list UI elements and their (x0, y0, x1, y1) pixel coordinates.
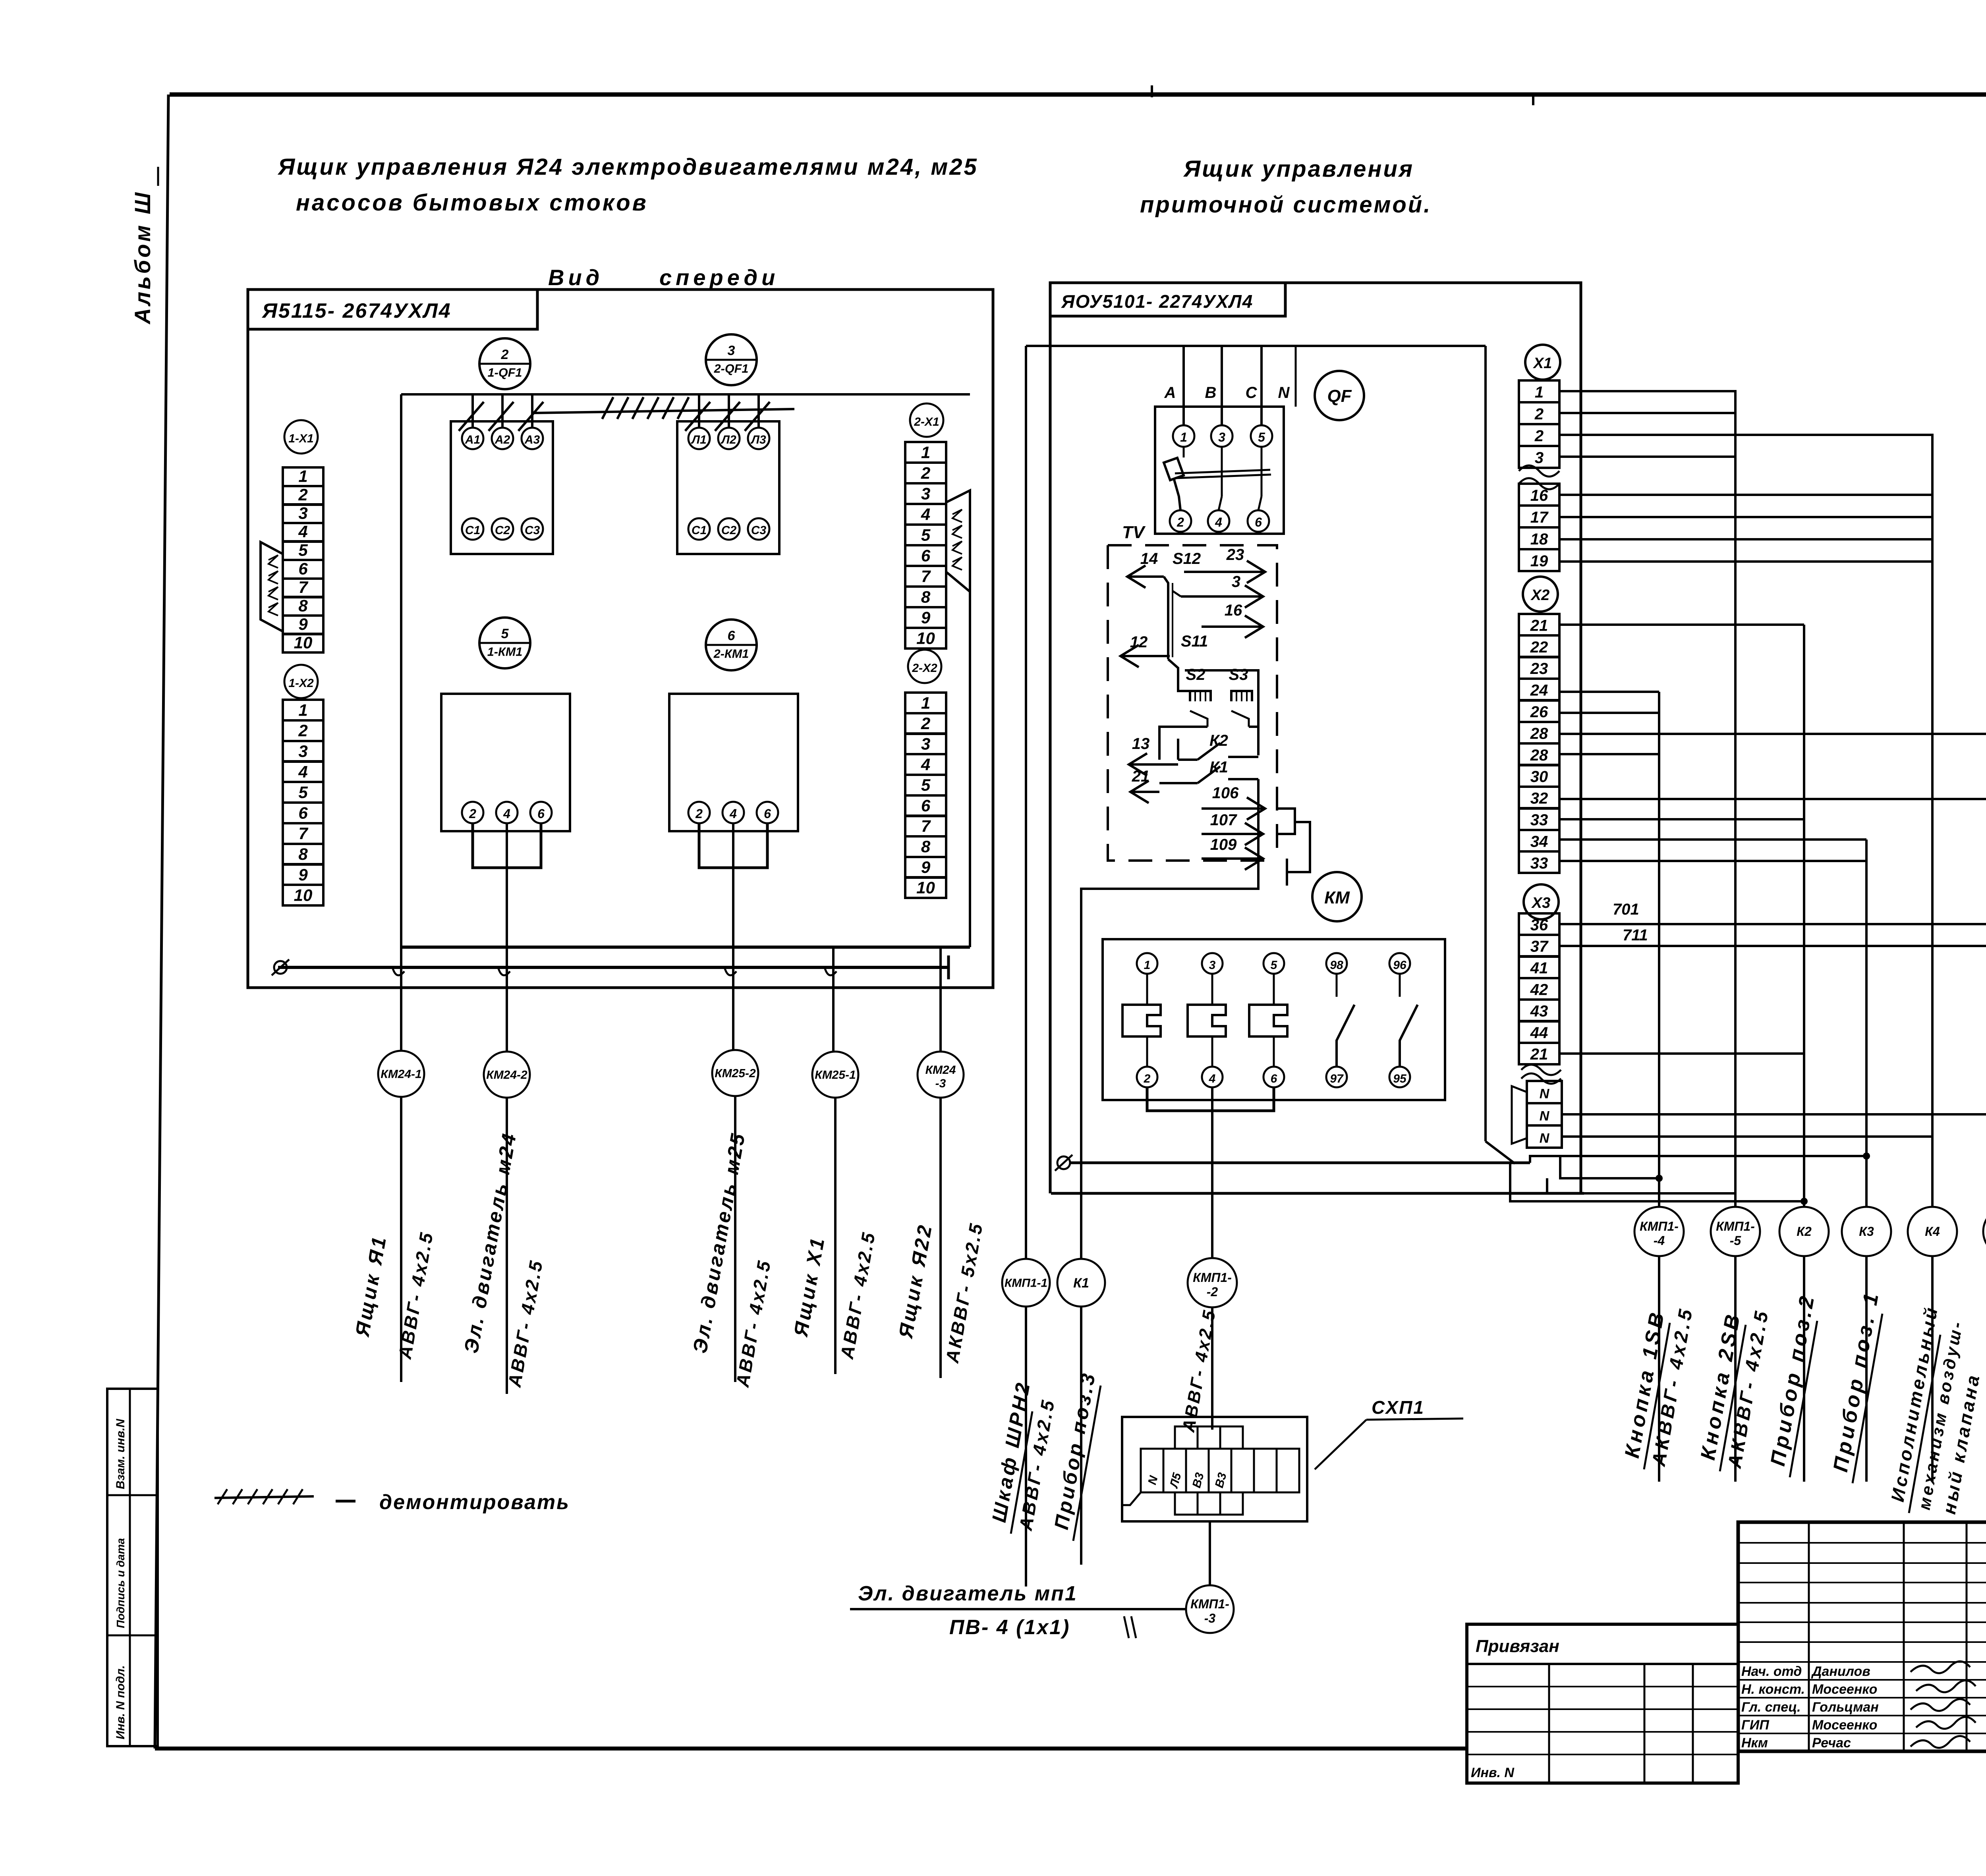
X3-N3 wire to К4 (1562, 1135, 1933, 1138)
svg-text:насосов бытовых стоков: насосов бытовых стоков (296, 190, 648, 216)
bus 2967 to КМП1-4 vertical (1560, 1156, 1659, 1178)
breaker QF designator circle (1315, 371, 1364, 420)
wire X2-24 to КМП1-4 drop (1559, 691, 1659, 693)
svg-text:28: 28 (1530, 725, 1548, 742)
svg-text:Альбом Ш: Альбом Ш (130, 190, 155, 325)
svg-text:4: 4 (1215, 515, 1222, 529)
svg-text:10: 10 (916, 629, 935, 648)
svg-text:98: 98 (1330, 959, 1343, 972)
cable circle КМП1-1 (1002, 1259, 1050, 1307)
2-QF1 pin Л2 (718, 428, 740, 449)
ground bus end tick (947, 955, 950, 979)
wire X1-2a joins КМП1-5 drop (1559, 412, 1735, 414)
cable tail КМ24-2 (506, 1098, 508, 1394)
jumper loop under 2-КМ1 (699, 823, 767, 868)
wires from panel top to 2-QF1 with breaker blades (698, 394, 700, 428)
svg-text:2: 2 (1534, 427, 1544, 445)
panel type label box ЯОУ5101-2274УХЛ4 (1050, 283, 1285, 316)
bus 3005 stub to КМП1-5 vertical (1546, 1178, 1548, 1193)
svg-text:13: 13 (1132, 735, 1150, 753)
svg-text:А: А (1164, 384, 1176, 401)
wire drop КМ25-1 from panel bottom (832, 947, 835, 1051)
svg-text:Л3: Л3 (750, 433, 766, 446)
svg-text:96: 96 (1393, 959, 1406, 972)
svg-text:S2: S2 (1186, 666, 1206, 683)
svg-text:3: 3 (728, 343, 735, 358)
svg-text:6: 6 (298, 559, 308, 578)
title block personnel rows (1738, 1661, 1986, 1663)
svg-text:7: 7 (921, 817, 931, 836)
svg-text:S3: S3 (1229, 666, 1248, 683)
svg-text:9: 9 (298, 615, 308, 633)
legend dash (336, 1500, 355, 1503)
wire drop КМ24-3 from inner box corner (939, 947, 942, 1051)
svg-text:3: 3 (921, 735, 930, 753)
КМ main contact poles (1146, 974, 1148, 1005)
ground bus hooks at wire crossings (392, 967, 404, 975)
svg-text:А2: А2 (495, 433, 510, 446)
svg-text:23: 23 (1530, 660, 1548, 677)
wavy break above N block (1521, 1073, 1561, 1084)
X3-N2 wire to К5 (1562, 1113, 1986, 1116)
svg-text:Мосеенко: Мосеенко (1812, 1718, 1877, 1733)
inner equipment box left edge / drop to КМП1-1 (1025, 346, 1027, 1259)
svg-text:С2: С2 (495, 524, 510, 537)
svg-text:1-Х1: 1-Х1 (288, 432, 313, 445)
svg-text:S12: S12 (1173, 550, 1201, 567)
breaker QF box (1155, 407, 1284, 534)
terminal strip X1 upper cells 1 2 2 3 (1519, 380, 1559, 402)
terminal block 2-X2 (905, 693, 946, 713)
svg-text:Гл. спец.: Гл. спец. (1741, 1700, 1801, 1715)
connector bracket left of 1-X1 (261, 542, 283, 631)
svg-text:КМ25-1: КМ25-1 (815, 1069, 856, 1082)
ground bus in panel with earth symbol (278, 966, 949, 969)
svg-text:33: 33 (1530, 811, 1548, 829)
contactor 1-КМ1 box (441, 694, 570, 831)
wire drop to КМ24-1 (400, 947, 402, 1051)
terminal block 2-X1 label circle (910, 403, 943, 437)
svg-text:Ящик управления Я24 электро: Ящик управления Я24 электродвигателями м… (277, 154, 978, 180)
jumper loop under 1-КМ1 (473, 823, 541, 868)
panel inner edge diagonal to N block (1486, 1141, 1515, 1164)
svg-text:ГИП: ГИП (1741, 1718, 1770, 1733)
svg-text:Х3: Х3 (1531, 895, 1550, 911)
svg-text:22: 22 (1530, 639, 1548, 656)
svg-text:Эл. двигатель мп1: Эл. двигатель мп1 (858, 1582, 1078, 1605)
cable circle КМ24-3 (918, 1052, 964, 1098)
svg-text:10: 10 (916, 878, 935, 897)
svg-text:7: 7 (298, 578, 308, 596)
wire X1-18 joins К4 drop (1559, 538, 1932, 540)
cable tail КМ25-1 (834, 1098, 837, 1374)
svg-text:7: 7 (298, 824, 308, 843)
QF breaker blades and trip bar (1183, 447, 1185, 457)
legend: demolition hatch symbol (214, 1496, 314, 1498)
svg-text:106: 106 (1212, 784, 1239, 802)
wire drop КМ24-2 lower part (506, 947, 508, 1051)
svg-text:Ящик управления: Ящик управления (1183, 156, 1414, 182)
svg-text:2-КМ1: 2-КМ1 (713, 647, 749, 660)
svg-text:КМП1-: КМП1- (1640, 1219, 1679, 1233)
svg-text:95: 95 (1393, 1072, 1407, 1085)
СХП1 plug middle row cells (1141, 1449, 1163, 1492)
svg-text:Данилов: Данилов (1811, 1664, 1870, 1679)
cable circle КМ25-2 (712, 1050, 758, 1096)
2-КМ1 pin 4 (723, 802, 744, 823)
svg-text:2: 2 (1534, 405, 1544, 423)
cable tail К2 (1803, 1256, 1805, 1482)
svg-text:6: 6 (764, 807, 771, 821)
svg-text:КМ: КМ (1324, 888, 1350, 907)
wire X1-16 joins К4 drop (1559, 494, 1932, 496)
svg-text:26: 26 (1530, 703, 1548, 721)
S11 top bar and right side wire (1185, 670, 1258, 755)
transformer TV dashed box (1108, 545, 1277, 861)
N wire stub (1295, 346, 1297, 407)
left margin stamp boxes (107, 1389, 158, 1746)
svg-text:N: N (1278, 384, 1290, 401)
svg-text:4: 4 (298, 522, 307, 541)
panel Я5115 outer cabinet box (248, 290, 993, 988)
svg-text:2-Х2: 2-Х2 (912, 662, 937, 675)
svg-text:А3: А3 (524, 433, 540, 446)
1-QF1 pin C3 (522, 518, 543, 540)
cable tail КМ25-2 (734, 1096, 736, 1382)
svg-text:С1: С1 (692, 524, 707, 537)
title block left table thin rows (1738, 1542, 1986, 1544)
S11 blade (1168, 659, 1190, 691)
svg-text:КМП1-: КМП1- (1193, 1270, 1232, 1285)
svg-text:6: 6 (1255, 515, 1262, 529)
svg-text:4: 4 (503, 807, 510, 821)
cable circle К4 (1908, 1207, 1957, 1256)
cable circle КМП1--6 (1983, 1207, 1986, 1256)
cable circle КМП1--4 (1634, 1207, 1684, 1256)
svg-text:СХП1: СХП1 (1372, 1397, 1425, 1418)
wire X2-33 joins К2 drop (1559, 818, 1804, 820)
svg-text:К4: К4 (1925, 1224, 1940, 1239)
svg-text:КМП1-: КМП1- (1716, 1219, 1755, 1233)
svg-text:43: 43 (1530, 1003, 1548, 1020)
svg-text:5: 5 (921, 776, 931, 794)
svg-text:8: 8 (298, 845, 308, 863)
svg-text:3: 3 (1218, 430, 1225, 444)
cable tail КМП1-1 (1025, 1307, 1027, 1586)
terminal block N cells (1527, 1081, 1562, 1103)
cable tail К4 (1931, 1256, 1934, 1482)
svg-text:2: 2 (1177, 515, 1184, 529)
svg-text:9: 9 (921, 608, 931, 627)
svg-text:1-Х2: 1-Х2 (288, 677, 314, 690)
panel type label box Я5115-2674УХЛ4 (248, 290, 537, 329)
wire X2-32 joins К5 drop (1559, 798, 1986, 800)
drawing frame border (170, 93, 1986, 97)
svg-text:К3: К3 (1859, 1224, 1874, 1239)
svg-text:Речас: Речас (1812, 1735, 1851, 1751)
svg-text:30: 30 (1530, 768, 1548, 786)
1-КМ1 pin 2 (462, 802, 483, 823)
contactor 1-КМ1 designator circle (479, 618, 530, 668)
wire drop КМ25-2 lower part (732, 947, 734, 1051)
wire from КМ pin 4 down to КМП1-2 (1211, 1087, 1213, 1259)
svg-text:В: В (1205, 384, 1217, 401)
svg-text:N: N (1540, 1109, 1550, 1124)
svg-text:ЯОУ5101- 2274УХЛ4: ЯОУ5101- 2274УХЛ4 (1061, 291, 1253, 312)
К2 drop vertical (1803, 625, 1805, 1208)
contactor 2-КМ1 designator circle (706, 620, 757, 670)
svg-text:Л2: Л2 (721, 433, 736, 446)
wire X2-28b joins КМП1-4 drop (1559, 753, 1659, 755)
svg-text:-4: -4 (1654, 1233, 1665, 1248)
wire X1-2b to К4 drop (1559, 435, 1932, 500)
svg-text:6: 6 (728, 628, 736, 643)
1-КМ1 pin 6 (530, 802, 552, 823)
svg-text:Нач. отд: Нач. отд (1741, 1664, 1802, 1679)
svg-text:7: 7 (921, 567, 931, 586)
svg-text:3: 3 (298, 742, 307, 760)
cable tail КМП1--4 (1658, 1256, 1660, 1482)
svg-text:5: 5 (501, 626, 509, 641)
wire from 1-КМ1 pin 4 down (506, 823, 508, 947)
2-QF1 pin C3 (748, 518, 769, 540)
breaker 1-QF1 terminal box (451, 421, 553, 554)
КМ pins 1 3 5 top (1137, 953, 1157, 974)
svg-text:28: 28 (1530, 747, 1548, 764)
svg-text:К2: К2 (1209, 732, 1228, 749)
contactor КМ designator circle (1312, 872, 1362, 921)
svg-text:Гольцман: Гольцман (1812, 1700, 1879, 1715)
svg-text:С3: С3 (525, 524, 540, 537)
svg-text:С1: С1 (465, 524, 480, 537)
wire X2-34 to К3 drop (1559, 838, 1866, 841)
K1 output wire to cable К1 drop (1081, 779, 1258, 1259)
svg-text:Привязан: Привязан (1476, 1637, 1559, 1656)
2-QF1 pin Л3 (748, 428, 769, 449)
cable tail КМ24-3 (939, 1098, 942, 1378)
svg-text:10: 10 (294, 886, 313, 905)
svg-text:4: 4 (298, 762, 307, 781)
svg-text:2-QF1: 2-QF1 (714, 362, 749, 375)
wires from panel top to 1-QF1 with breaker blades (471, 394, 474, 428)
svg-text:6: 6 (537, 807, 545, 821)
cable circle КМП1-2 (1188, 1258, 1237, 1307)
1-КМ1 pin 4 (496, 802, 518, 823)
svg-text:-3: -3 (935, 1077, 946, 1090)
svg-text:16: 16 (1225, 602, 1242, 619)
bus 2911 from ground hook to К3 (1530, 1156, 1866, 1163)
КМ aux contact 98-97 (1326, 953, 1347, 974)
svg-text:18: 18 (1530, 531, 1548, 548)
cable circle КМ24-2 (484, 1052, 530, 1098)
svg-text:Я5115- 2674УХЛ4: Я5115- 2674УХЛ4 (261, 299, 452, 322)
cable tail К3 (1865, 1256, 1868, 1482)
svg-text:19: 19 (1530, 552, 1548, 570)
КМП1-4 drop vertical (1658, 692, 1660, 1206)
bracket joining 106 107 109 to inner box (1277, 809, 1295, 834)
svg-text:5: 5 (298, 541, 308, 560)
svg-text:10: 10 (294, 633, 313, 652)
terminal strip X1 label circle (1525, 345, 1560, 380)
1-QF1 pin A3 (522, 428, 543, 449)
wire X1-1 to КМП1-5 drop (1559, 391, 1735, 413)
svg-text:6: 6 (298, 803, 308, 822)
terminal strip X2 label circle (1523, 577, 1558, 612)
svg-text:4: 4 (729, 807, 737, 821)
contactor КМ box (1103, 939, 1445, 1100)
inner mounting panel box (400, 394, 402, 947)
svg-text:42: 42 (1530, 981, 1548, 998)
svg-text:8: 8 (921, 837, 931, 856)
terminal block 1-X1 label circle (284, 420, 318, 454)
cable circle КМ25-1 (812, 1052, 858, 1098)
earth symbol and ground line in ЯОУ panel (1057, 1156, 1070, 1169)
bracket left of N block (1512, 1086, 1527, 1144)
svg-text:8: 8 (921, 588, 931, 606)
contactor 2-КМ1 box (669, 694, 798, 831)
svg-text:14: 14 (1140, 550, 1158, 567)
svg-text:17: 17 (1530, 509, 1549, 526)
1-QF1 pin A1 (462, 428, 483, 449)
svg-text:А1: А1 (465, 433, 480, 446)
panel ЯОУ5101 outer box (1285, 283, 1581, 1193)
svg-text:1-QF1: 1-QF1 (488, 366, 522, 379)
svg-text:4: 4 (921, 755, 930, 774)
svg-text:-3: -3 (1204, 1611, 1216, 1625)
svg-text:2: 2 (469, 807, 476, 821)
wire X2-21 to К2 drop (1559, 623, 1804, 626)
К4 drop vertical (1931, 435, 1934, 1206)
СХП1 plug upper row cells (1175, 1426, 1198, 1449)
terminal strip X3 label circle (1524, 884, 1559, 919)
svg-text:97: 97 (1330, 1072, 1344, 1085)
wire X1-19 joins К4 drop (1559, 560, 1932, 563)
S12 blade double line (1164, 577, 1168, 659)
svg-text:-2: -2 (1207, 1285, 1218, 1299)
terminal block 2-X1 (905, 442, 946, 463)
wire X2-26 joins КМП1-4 drop (1559, 712, 1659, 714)
svg-text:Подпись и дата: Подпись и дата (114, 1538, 127, 1628)
terminal strip X3 cells (1519, 913, 1559, 935)
breaker 1-QF1 designator circle (479, 338, 530, 389)
svg-text:9: 9 (298, 865, 308, 884)
svg-text:1: 1 (1180, 430, 1187, 444)
К3 drop vertical (1865, 840, 1868, 1207)
svg-text:ТV: ТV (1122, 523, 1146, 542)
svg-text:2: 2 (921, 464, 930, 483)
2-QF1 pin C2 (718, 518, 740, 540)
svg-text:1: 1 (921, 443, 930, 462)
svg-text:Вид: Вид (548, 265, 603, 290)
svg-text:Н. конст.: Н. конст. (1741, 1682, 1805, 1697)
plug connector СХП1 outer box (1122, 1417, 1307, 1521)
КМ aux contact 96-95 (1389, 953, 1410, 974)
wire between breakers marked for demolition (532, 409, 794, 413)
КМ pins 2 4 6 bottom (1137, 1067, 1157, 1087)
svg-text:34: 34 (1530, 833, 1548, 850)
svg-text:Х1: Х1 (1533, 355, 1552, 372)
svg-text:С3: С3 (751, 524, 767, 537)
cable circle КМП1--5 (1711, 1207, 1760, 1256)
cable tail КМП1--5 (1734, 1256, 1737, 1482)
cable circle К1 (1057, 1259, 1105, 1307)
svg-text:2: 2 (695, 807, 703, 821)
cable circle К2 (1779, 1207, 1829, 1256)
svg-text:701: 701 (1613, 901, 1639, 918)
svg-text:Взам. инв.N: Взам. инв.N (114, 1419, 127, 1489)
wire X1-17 joins К4 drop (1559, 516, 1932, 518)
svg-text:ПВ- 4 (1х1): ПВ- 4 (1х1) (949, 1616, 1070, 1639)
svg-text:2: 2 (1144, 1072, 1151, 1085)
wires under КМ pins 2 and 6 jumper (1147, 1087, 1274, 1111)
wire X2-28a to К5 drop (1559, 733, 1986, 735)
svg-text:S11: S11 (1181, 633, 1208, 650)
terminal block 1-X1 (283, 467, 323, 486)
bus 3040 to К2 vertical (1510, 1163, 1804, 1201)
wire X1-3 joins КМП1-5 drop (1559, 455, 1735, 458)
svg-text:21: 21 (1530, 1046, 1548, 1063)
svg-text:КМ24: КМ24 (925, 1063, 956, 1077)
svg-text:1: 1 (1535, 384, 1544, 401)
X1 wavy break (1519, 465, 1559, 477)
svg-text:23: 23 (1226, 546, 1244, 564)
title block outer box (1738, 1522, 1986, 1751)
svg-text:Инв. N: Инв. N (1471, 1765, 1515, 1780)
1-QF1 pin A2 (492, 428, 513, 449)
terminal block 2-X2 label circle (908, 650, 941, 683)
svg-text:КМ25-2: КМ25-2 (715, 1067, 756, 1080)
svg-text:5: 5 (1271, 959, 1278, 972)
svg-text:3: 3 (1535, 449, 1544, 467)
svg-text:8: 8 (298, 596, 308, 615)
svg-text:2-Х1: 2-Х1 (914, 415, 939, 428)
svg-text:107: 107 (1210, 811, 1237, 829)
svg-text:2: 2 (501, 347, 509, 362)
svg-text:3: 3 (1209, 959, 1216, 972)
svg-text:109: 109 (1210, 836, 1237, 853)
svg-text:КМП1-1: КМП1-1 (1005, 1277, 1047, 1290)
svg-text:1: 1 (1144, 959, 1151, 972)
wire X3-21 joins К2 drop (1559, 1052, 1804, 1055)
QF pole pins 1 3 5 (1173, 425, 1194, 447)
wire X3-37 (711) joins КМП1-6 drop (1559, 945, 1986, 947)
svg-text:6: 6 (1271, 1072, 1277, 1085)
cable circle КМ24-1 (378, 1051, 424, 1097)
svg-text:N: N (1540, 1131, 1550, 1146)
signatures scribbles (1911, 1661, 1970, 1673)
svg-text:КМ24-2: КМ24-2 (486, 1069, 527, 1082)
svg-text:КМП1-: КМП1- (1190, 1597, 1229, 1611)
svg-text:3: 3 (1232, 573, 1240, 591)
svg-text:2: 2 (921, 714, 930, 733)
svg-text:5: 5 (921, 526, 931, 544)
svg-text:спереди: спереди (659, 265, 779, 290)
svg-text:16: 16 (1530, 487, 1548, 504)
inner equipment box top edge (1026, 345, 1486, 347)
wire X3-36 (701) to КМП1-6 drop (1559, 923, 1986, 925)
svg-text:5: 5 (1258, 430, 1265, 444)
2-QF1 pin Л1 (688, 428, 710, 449)
svg-text:37: 37 (1530, 938, 1549, 955)
cable circle К3 (1842, 1207, 1891, 1256)
2-КМ1 pin 2 (688, 802, 710, 823)
connector bracket right of 2-X1 joining inner box edge (946, 490, 970, 947)
СХП1 plug lower row cells (1175, 1492, 1198, 1515)
cable tail КМ24-1 (400, 1097, 402, 1382)
svg-text:2: 2 (298, 721, 307, 740)
svg-text:QF: QF (1327, 386, 1352, 406)
КМП1-5 drop vertical (1734, 413, 1737, 1208)
